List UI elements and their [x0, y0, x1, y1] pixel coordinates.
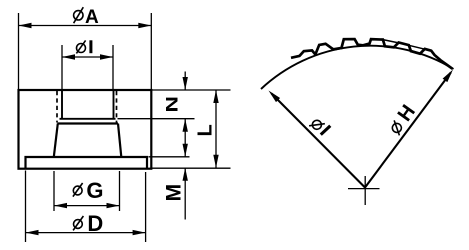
svg-text:G: G [86, 178, 103, 203]
extension line top right [152, 89, 231, 91]
notch top edge 2 [409, 45, 425, 49]
serration teeth profile [291, 39, 453, 69]
cone left side [54, 124, 58, 158]
dimension line D [26, 232, 146, 234]
svg-text:H: H [394, 101, 420, 126]
svg-text:D: D [87, 211, 103, 236]
svg-text:M: M [162, 184, 185, 202]
dimension N upper arrow [184, 72, 186, 91]
root arc [261, 46, 454, 89]
label diameter G [73, 178, 104, 203]
extension line I right [112, 45, 114, 89]
extension line flange top right [149, 156, 190, 158]
hidden line left [56, 91, 58, 123]
dimension line L [215, 90, 217, 168]
dimension line G [54, 205, 120, 207]
bore left edge [61, 90, 63, 119]
label diameter I [76, 40, 92, 53]
dimension N lower / M upper shared line [184, 119, 186, 157]
body outline [19, 90, 152, 169]
label diameter I rotated [309, 115, 331, 137]
flange top edge [26, 157, 148, 169]
svg-text:A: A [85, 7, 99, 28]
cone top lower line [57, 122, 118, 124]
extension line A left [18, 13, 20, 89]
label diameter A [74, 7, 99, 28]
label diameter D [73, 211, 103, 236]
extension line D left [25, 171, 27, 243]
svg-text:N: N [164, 96, 182, 112]
radius arrow I [272, 94, 366, 188]
radius arrow H [365, 73, 451, 188]
extension line G right [119, 171, 121, 211]
extension line A right [150, 13, 152, 89]
dimension line I [62, 56, 113, 58]
notch top edge 1 [383, 40, 399, 43]
extension line I left [61, 45, 63, 89]
extension line flange bottom right [152, 167, 231, 169]
counterbore upper line [60, 118, 116, 120]
center cross [348, 188, 380, 190]
dimension M lower arrow [184, 168, 186, 220]
extension line D right [145, 172, 147, 242]
extension line G left [53, 171, 55, 211]
extension line cone top right [118, 118, 195, 120]
svg-text:L: L [194, 124, 216, 136]
cone right side [118, 124, 121, 158]
bore right edge [113, 90, 115, 119]
label diameter H rotated [385, 101, 420, 138]
dimension line A [19, 25, 152, 27]
hidden line right [116, 91, 118, 123]
